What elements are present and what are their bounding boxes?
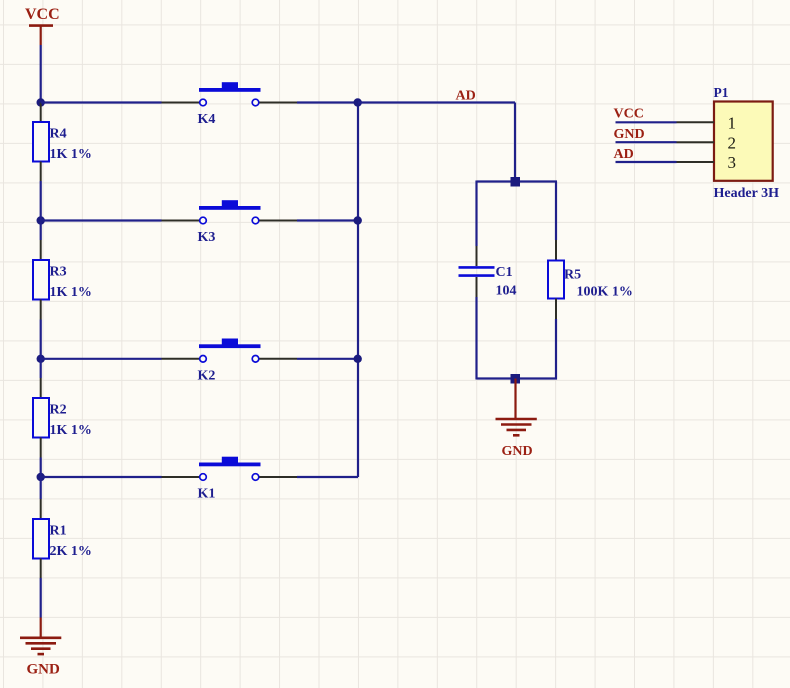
wire R5 to RC block bottom <box>555 319 557 380</box>
wire R2 to node D <box>40 458 42 478</box>
wire R3 to node C <box>40 320 42 359</box>
wire node C to K2 <box>41 358 162 360</box>
svg-text:GND: GND <box>27 662 61 678</box>
pin 2 of P1 <box>677 141 715 143</box>
resistor R5 <box>548 240 633 319</box>
svg-text:Header 3H: Header 3H <box>714 186 780 201</box>
node I junction square (bottom of RC block) <box>511 374 521 384</box>
wire top to C1 <box>475 181 477 247</box>
wire K2 to right rail <box>297 358 358 360</box>
wire node A to K4 <box>41 101 162 103</box>
svg-text:GND: GND <box>502 444 533 459</box>
svg-text:P1: P1 <box>714 85 729 100</box>
pin 1 of P1 <box>677 121 715 123</box>
svg-text:3: 3 <box>728 153 737 172</box>
wire R4 to node B <box>40 181 42 221</box>
wire K4 to right rail <box>297 101 358 103</box>
svg-text:AD: AD <box>456 89 476 104</box>
ground right <box>496 379 537 460</box>
node F junction (right rail K3) <box>354 216 362 224</box>
wire VCC to node A <box>40 45 42 103</box>
resistor R2 <box>33 378 92 458</box>
resistor R3 <box>33 240 92 320</box>
svg-text:R1: R1 <box>50 524 67 539</box>
wire node B to R3 <box>40 221 42 241</box>
ground left <box>20 618 61 678</box>
wire node D to R1 <box>40 477 42 499</box>
svg-text:K3: K3 <box>198 230 216 245</box>
wire node B to K3 <box>41 219 162 221</box>
wire C1 to RC block bottom <box>475 297 477 380</box>
wire right rail <box>357 103 359 478</box>
wire K1 to right rail <box>297 476 358 478</box>
wire node D to K1 <box>41 476 162 478</box>
pushbutton K3 <box>162 200 298 245</box>
node D junction <box>37 473 45 481</box>
node A junction <box>37 98 45 106</box>
resistor R4 <box>33 103 92 182</box>
svg-text:AD: AD <box>614 147 634 162</box>
wire top to R5 <box>555 182 557 241</box>
svg-text:1K 1%: 1K 1% <box>50 147 92 162</box>
node H junction square (top of RC block) <box>511 177 521 187</box>
node C junction <box>37 355 45 363</box>
svg-text:K1: K1 <box>198 487 216 502</box>
wire R1 to GND <box>40 578 42 618</box>
svg-text:R5: R5 <box>564 268 581 283</box>
wire net AD stub <box>616 161 677 163</box>
wire RC block bottom <box>477 377 558 379</box>
svg-text:100K 1%: 100K 1% <box>577 285 633 300</box>
wire net AD horizontal <box>358 101 515 103</box>
node G junction (right rail K2) <box>354 355 362 363</box>
svg-text:2: 2 <box>728 133 737 152</box>
svg-text:104: 104 <box>496 284 517 299</box>
svg-text:K2: K2 <box>198 368 216 383</box>
wire AD down to RC block <box>514 103 516 182</box>
node E junction (right rail K4) <box>354 98 362 106</box>
wire K3 to right rail <box>297 219 358 221</box>
svg-text:VCC: VCC <box>25 6 60 23</box>
pushbutton K2 <box>162 339 298 384</box>
pushbutton K1 <box>162 457 298 502</box>
svg-text:2K 1%: 2K 1% <box>50 544 92 559</box>
svg-text:R3: R3 <box>50 265 67 280</box>
svg-text:1K 1%: 1K 1% <box>50 423 92 438</box>
wire node C to R2 <box>40 359 42 378</box>
svg-text:R2: R2 <box>50 403 67 418</box>
pin 3 of P1 <box>677 161 715 163</box>
svg-text:K4: K4 <box>198 112 216 127</box>
svg-text:1K 1%: 1K 1% <box>50 285 92 300</box>
svg-text:GND: GND <box>614 127 645 142</box>
resistor R1 <box>33 499 92 578</box>
power port VCC <box>25 6 60 45</box>
wire RC block top <box>477 180 558 182</box>
svg-text:C1: C1 <box>496 265 513 280</box>
connector P1 <box>714 85 780 201</box>
node B junction <box>37 216 45 224</box>
svg-text:R4: R4 <box>50 127 67 142</box>
pushbutton K4 <box>162 82 298 127</box>
svg-text:VCC: VCC <box>614 107 644 122</box>
wire net GND stub <box>616 141 677 143</box>
capacitor C1 <box>459 246 517 299</box>
wire net VCC stub <box>616 121 677 123</box>
svg-text:1: 1 <box>728 114 737 133</box>
